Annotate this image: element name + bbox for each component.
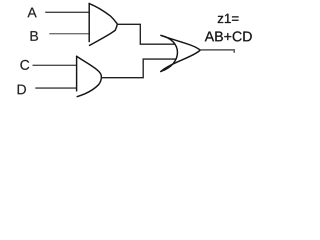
AND gate U1 (inputs A,B) xyxy=(89,3,117,45)
input label D xyxy=(18,85,26,95)
output label AB+CD xyxy=(205,31,252,41)
wire AND1 output to OR input (net n1) xyxy=(117,24,175,44)
output wire z1 xyxy=(200,50,234,53)
input label A xyxy=(27,8,36,18)
wire C to AND2 xyxy=(33,64,77,66)
output label z1= xyxy=(218,14,239,23)
input label C xyxy=(20,60,29,70)
AND gate U2 (inputs C,D) xyxy=(77,56,102,96)
input label B xyxy=(31,31,38,41)
OR gate U3 xyxy=(161,35,200,71)
wire A to AND1 xyxy=(45,11,89,13)
wire AND2 output to OR input (net n2) xyxy=(101,59,176,78)
wire B to AND1 xyxy=(49,33,89,35)
wire D to AND2 xyxy=(35,87,76,89)
